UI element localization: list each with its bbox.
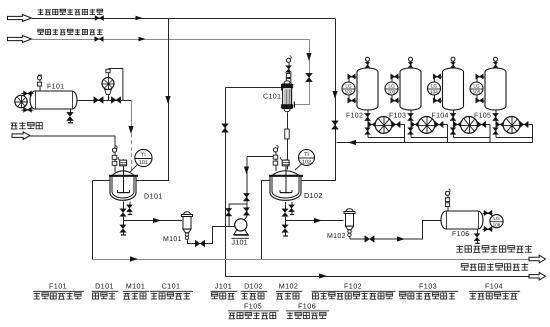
svg-text:LG: LG <box>493 216 500 221</box>
svg-text:J101: J101 <box>215 282 232 291</box>
svg-text:M101: M101 <box>126 282 146 291</box>
svg-text:LG: LG <box>388 84 395 89</box>
svg-text:M102: M102 <box>327 233 346 240</box>
svg-text:F104: F104 <box>432 112 449 119</box>
svg-text:D101: D101 <box>144 192 163 201</box>
svg-text:F106: F106 <box>452 231 470 238</box>
svg-text:F105: F105 <box>474 112 491 119</box>
svg-text:F105: F105 <box>244 301 262 310</box>
svg-text:C101: C101 <box>162 282 181 291</box>
svg-text:101: 101 <box>139 160 148 166</box>
svg-text:LG: LG <box>345 84 352 89</box>
svg-text:102: 102 <box>345 90 353 95</box>
svg-text:D102: D102 <box>304 191 323 200</box>
svg-text:F104: F104 <box>485 282 503 291</box>
svg-text:TI: TI <box>141 152 146 158</box>
svg-text:F106: F106 <box>298 301 316 310</box>
svg-text:102: 102 <box>302 159 311 165</box>
svg-text:M101: M101 <box>163 236 182 243</box>
svg-text:F102: F102 <box>344 282 362 291</box>
svg-text:D101: D101 <box>95 282 114 291</box>
svg-text:TI: TI <box>304 152 309 158</box>
svg-text:LG: LG <box>431 84 438 89</box>
svg-text:F101: F101 <box>49 282 67 291</box>
svg-text:104: 104 <box>430 90 438 95</box>
svg-text:F102: F102 <box>346 112 363 119</box>
svg-text:J101: J101 <box>232 240 248 247</box>
svg-text:106: 106 <box>493 222 501 227</box>
svg-text:105: 105 <box>473 90 481 95</box>
svg-text:F101: F101 <box>47 84 65 91</box>
svg-text:F103: F103 <box>389 112 406 119</box>
svg-text:D102: D102 <box>244 282 263 291</box>
svg-text:LG: LG <box>473 84 480 89</box>
svg-text:F103: F103 <box>419 282 437 291</box>
svg-text:M102: M102 <box>279 282 299 291</box>
svg-text:103: 103 <box>388 90 396 95</box>
svg-text:C101: C101 <box>263 94 281 101</box>
